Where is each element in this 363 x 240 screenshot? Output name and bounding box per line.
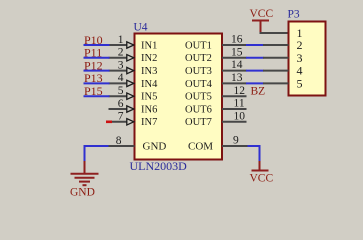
op-amp-style IC body U4 (ULN2003D) bbox=[135, 34, 223, 160]
svg-text:15: 15 bbox=[231, 46, 243, 58]
svg-text:OUT7: OUT7 bbox=[185, 117, 212, 128]
pin 2 input arrow bbox=[127, 55, 134, 61]
pin 6 input arrow bbox=[127, 106, 134, 112]
P3 pin 2 line bbox=[263, 44, 289, 46]
svg-text:IN6: IN6 bbox=[141, 104, 157, 115]
svg-text:OUT6: OUT6 bbox=[185, 104, 212, 115]
svg-text:OUT3: OUT3 bbox=[185, 66, 212, 77]
svg-text:P3: P3 bbox=[288, 9, 300, 21]
wire to IN3 bbox=[84, 70, 110, 72]
svg-text:8: 8 bbox=[116, 135, 122, 147]
pin 10 line (OUT7) bbox=[222, 121, 247, 123]
no-ERC marker on pin 7 bbox=[106, 121, 112, 124]
connector P3 body bbox=[289, 22, 326, 96]
svg-text:GND: GND bbox=[143, 141, 167, 153]
pin 3 line (IN3) bbox=[109, 70, 128, 72]
wire to IN4 bbox=[84, 82, 110, 84]
svg-text:IN3: IN3 bbox=[141, 66, 157, 77]
svg-text:7: 7 bbox=[118, 111, 124, 123]
pin 5 input arrow bbox=[127, 93, 134, 99]
pin 15 line (OUT2) bbox=[222, 57, 247, 59]
svg-text:IN7: IN7 bbox=[141, 117, 157, 128]
pin 4 input arrow bbox=[127, 80, 134, 86]
pin 14 line (OUT3) bbox=[222, 70, 247, 72]
wire OUT1 to P3 pin 2 bbox=[246, 44, 264, 46]
ground symbol bbox=[71, 161, 99, 185]
VCC power symbol (bottom) bbox=[252, 161, 269, 171]
svg-text:ULN2003D: ULN2003D bbox=[130, 159, 188, 173]
P3 pin 5 line bbox=[263, 82, 289, 84]
wire VCC to P3 pin 1 bbox=[261, 32, 289, 33]
svg-text:U4: U4 bbox=[134, 22, 148, 34]
svg-text:2: 2 bbox=[118, 47, 124, 59]
svg-text:IN1: IN1 bbox=[141, 40, 157, 51]
svg-text:12: 12 bbox=[234, 85, 246, 97]
pin 4 line (IN4) bbox=[109, 82, 128, 84]
svg-text:IN2: IN2 bbox=[141, 53, 157, 64]
svg-text:9: 9 bbox=[233, 135, 239, 147]
pin 5 line (IN5) bbox=[109, 95, 128, 97]
pin 9 line (COM) bbox=[222, 145, 248, 147]
svg-text:3: 3 bbox=[118, 59, 124, 71]
pin 16 line (OUT1) bbox=[222, 44, 247, 46]
svg-text:IN4: IN4 bbox=[141, 79, 158, 90]
svg-text:OUT2: OUT2 bbox=[185, 53, 212, 64]
wire OUT4 to P3 pin 5 bbox=[246, 82, 264, 84]
P3 pin 4 line bbox=[263, 70, 289, 72]
svg-text:OUT1: OUT1 bbox=[185, 40, 212, 51]
svg-text:GND: GND bbox=[70, 186, 95, 198]
pin 1 input arrow bbox=[127, 42, 134, 48]
svg-text:16: 16 bbox=[231, 34, 243, 46]
svg-text:13: 13 bbox=[231, 72, 243, 84]
svg-text:VCC: VCC bbox=[250, 8, 274, 20]
VCC power symbol (top) bbox=[252, 21, 269, 33]
svg-text:1: 1 bbox=[118, 34, 124, 46]
wire OUT2 to P3 pin 3 bbox=[246, 57, 264, 59]
pin 12 line (OUT5) bbox=[222, 95, 247, 97]
wire pin 9 to VCC bbox=[248, 146, 260, 162]
pin 2 line (IN2) bbox=[109, 57, 128, 59]
pin 7 input arrow bbox=[127, 119, 134, 125]
pin 7 line (IN7) bbox=[109, 121, 128, 123]
svg-text:4: 4 bbox=[118, 72, 124, 84]
wire to IN1 bbox=[84, 44, 110, 46]
svg-text:OUT5: OUT5 bbox=[185, 92, 212, 103]
pin 13 line (OUT4) bbox=[222, 82, 247, 84]
svg-text:IN5: IN5 bbox=[141, 92, 157, 103]
svg-text:6: 6 bbox=[118, 98, 124, 110]
pin 8 line (GND) bbox=[109, 145, 135, 147]
wire to IN2 bbox=[84, 57, 110, 59]
svg-text:P15: P15 bbox=[84, 84, 103, 98]
svg-text:10: 10 bbox=[234, 110, 246, 122]
svg-text:11: 11 bbox=[234, 98, 245, 110]
svg-text:VCC: VCC bbox=[250, 173, 274, 185]
svg-text:BZ: BZ bbox=[251, 86, 266, 98]
svg-text:5: 5 bbox=[297, 76, 303, 90]
pin 1 line (IN1) bbox=[109, 44, 128, 46]
svg-text:OUT4: OUT4 bbox=[185, 79, 213, 90]
wire from pin 8 bbox=[85, 146, 109, 162]
P3 pin 3 line bbox=[263, 57, 289, 59]
pin 11 line (OUT6) bbox=[222, 108, 247, 110]
pin 3 input arrow bbox=[127, 67, 134, 73]
wire to IN5 bbox=[84, 95, 110, 97]
svg-text:14: 14 bbox=[231, 59, 243, 71]
pin 6 line (IN6) bbox=[109, 108, 128, 110]
svg-text:COM: COM bbox=[188, 141, 213, 153]
svg-text:5: 5 bbox=[118, 85, 124, 97]
wire OUT3 to P3 pin 4 bbox=[246, 70, 264, 72]
